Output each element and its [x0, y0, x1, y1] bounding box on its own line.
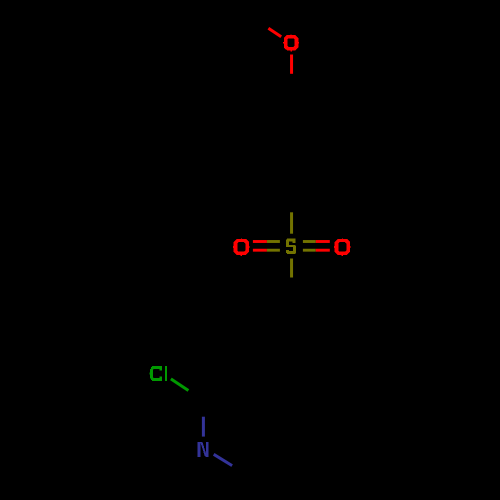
bond O-C4 ring (O-side half)	[290, 55, 293, 74]
S=O right double bond top line, red half	[316, 240, 330, 243]
S=O right double bond bottom line, red half	[316, 249, 330, 252]
atom label N (pyridine nitrogen) stems	[198, 442, 209, 457]
bond S-CH2 (S-side half)	[290, 259, 293, 278]
S=O left double bond bottom line, olive half	[267, 249, 280, 252]
bond N-C2 ring (N-side half)	[202, 417, 205, 437]
bond N-C6 ring (N-side half)	[214, 454, 232, 465]
bond Cl-C2 ring (Cl-side half)	[171, 379, 189, 391]
atom label N (pyridine nitrogen) diagonal	[200, 442, 207, 456]
atom label Cl - letter l (chlorine)	[165, 366, 167, 381]
S=O left double bond bottom line, red half	[253, 249, 267, 252]
bond S-C1 ring (S-side half)	[290, 212, 293, 233]
atom label Cl - letter C (chlorine)	[150, 366, 162, 381]
atom label O (sulfonyl left oxygen)	[233, 238, 250, 256]
S=O right double bond bottom line, olive half	[303, 249, 316, 252]
bond CH3-O (O-side half)	[268, 28, 281, 37]
atom label O (methoxy oxygen)	[283, 34, 299, 51]
S=O left double bond top line, olive half	[267, 240, 280, 243]
atom label O (sulfonyl right oxygen)	[334, 238, 351, 256]
S=O right double bond top line, olive half	[303, 240, 316, 243]
atom label S (sulfur)	[286, 239, 296, 254]
S=O left double bond top line, red half	[253, 240, 267, 243]
